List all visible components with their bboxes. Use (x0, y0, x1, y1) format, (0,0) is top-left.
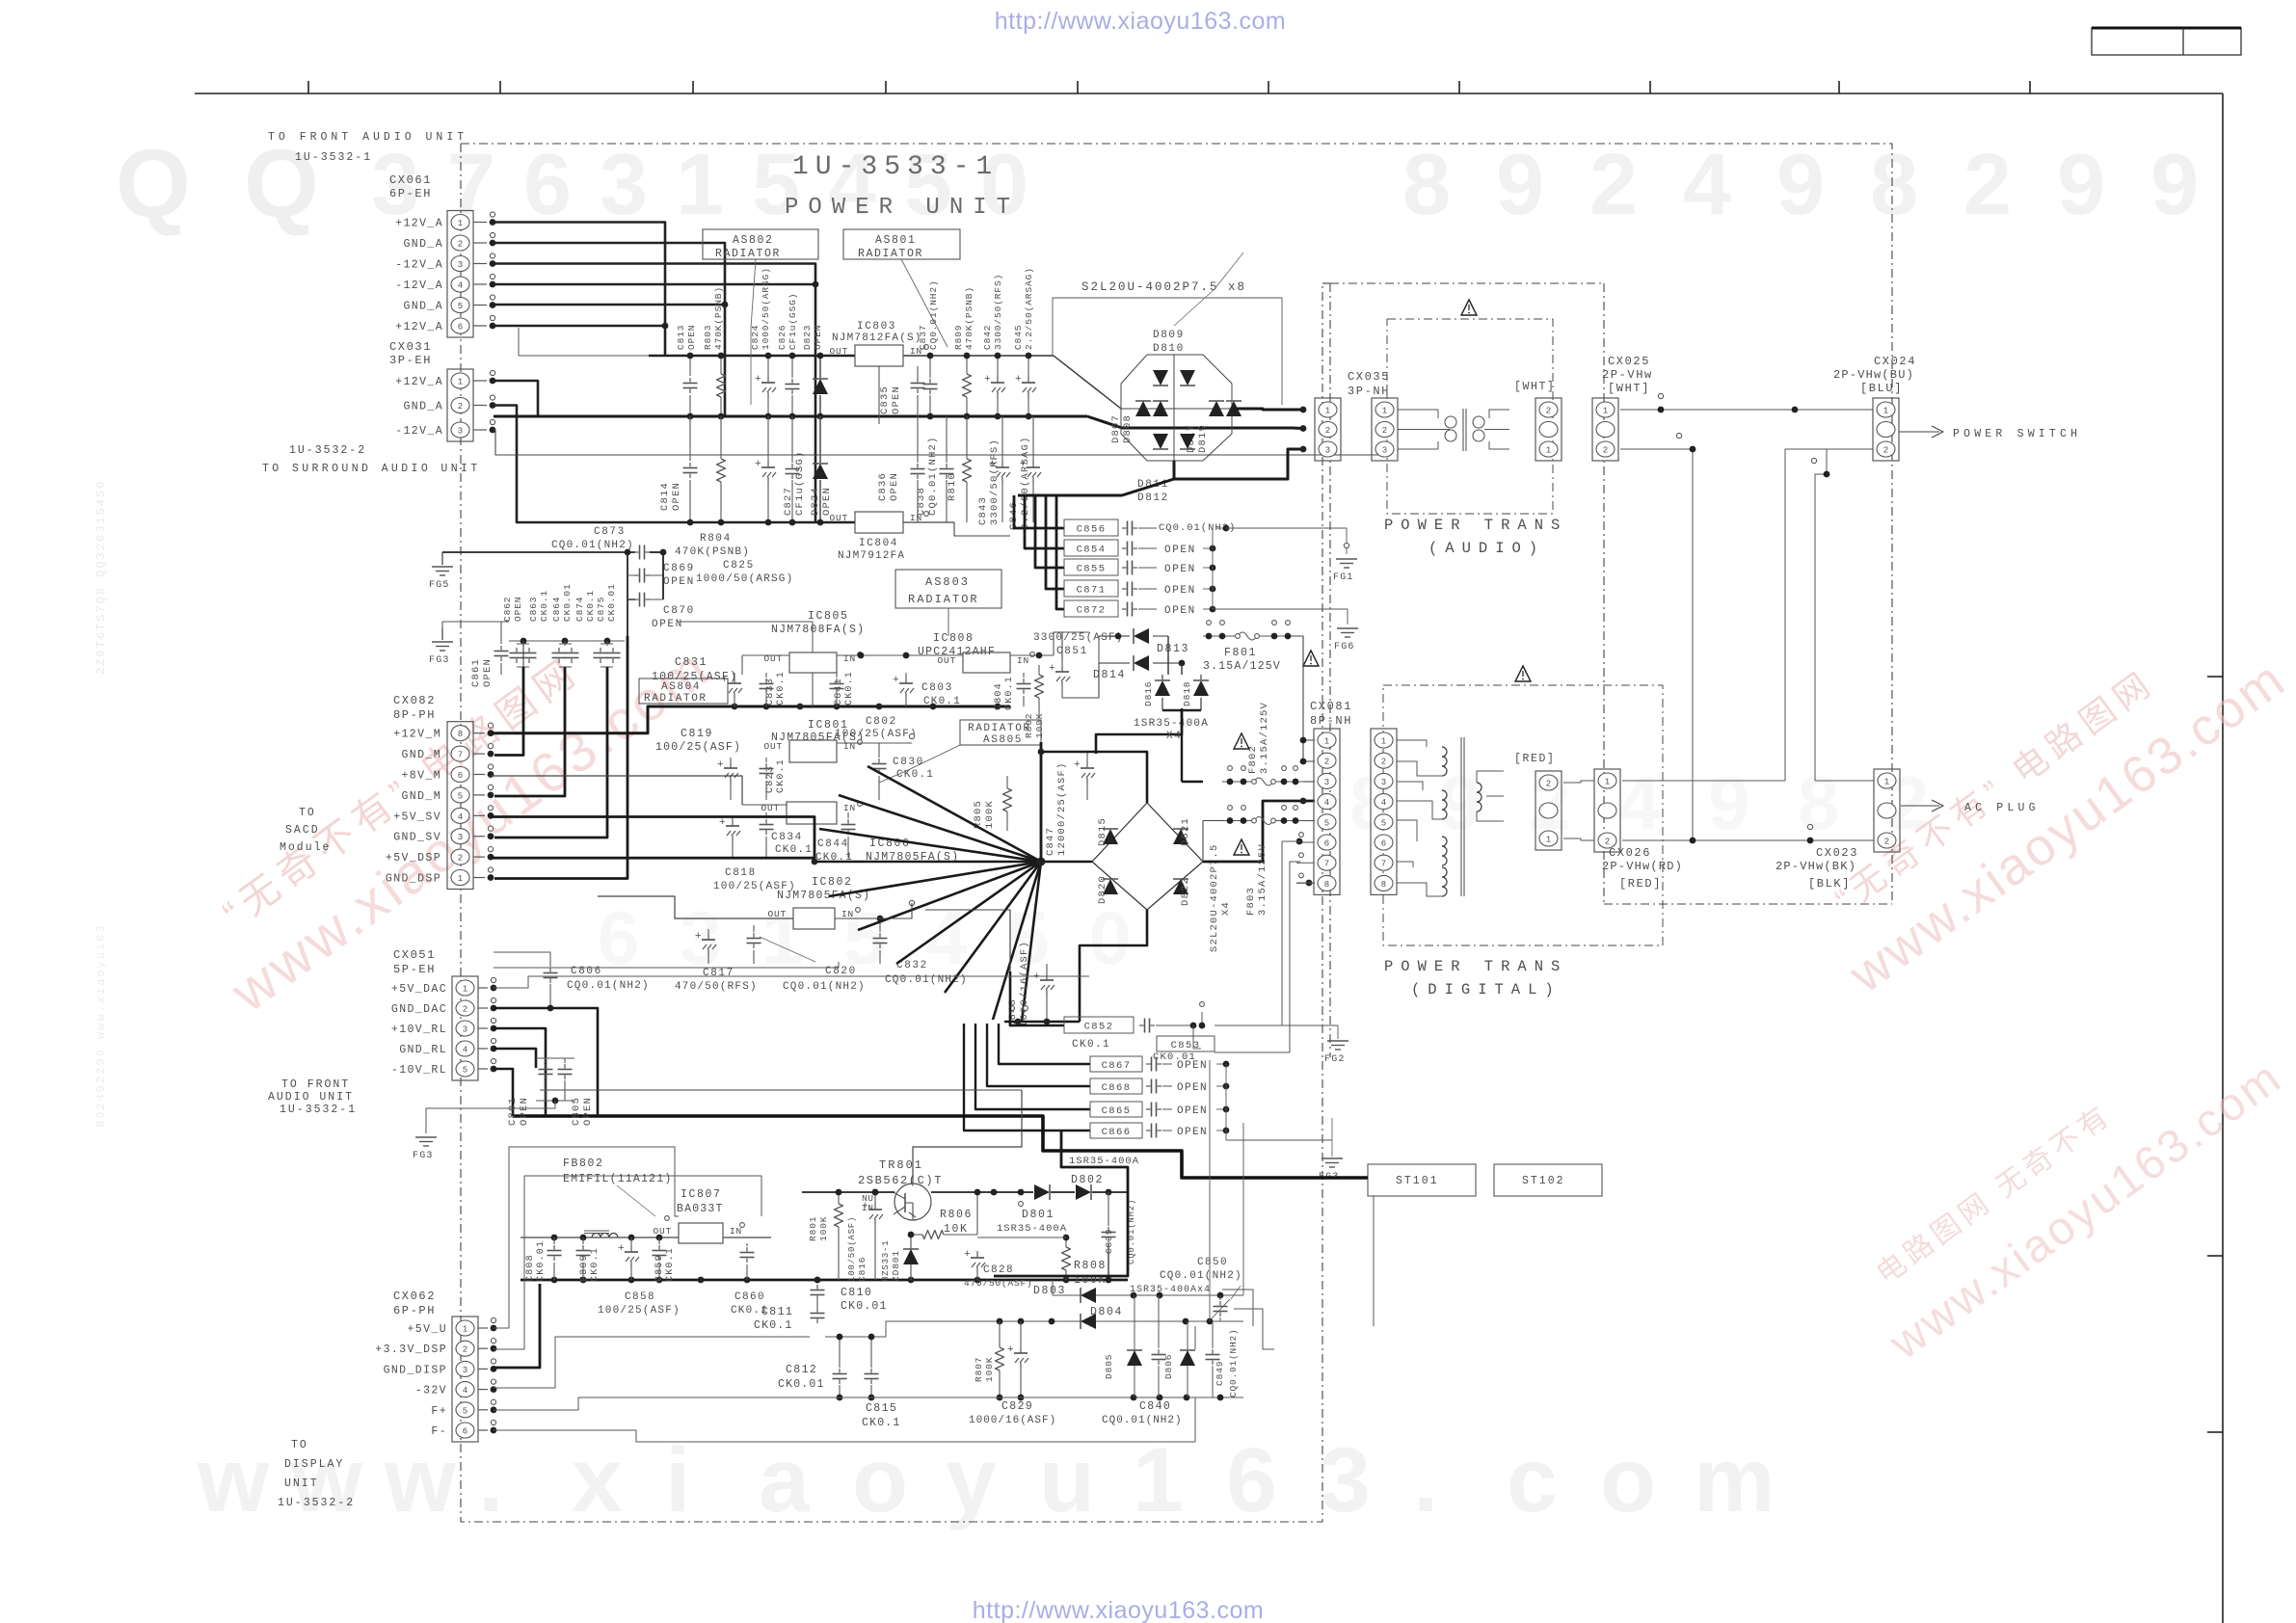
box ST101 (1368, 1164, 1476, 1196)
svg-text:D802: D802 (1071, 1174, 1104, 1186)
svg-text:D816: D816 (1143, 681, 1154, 706)
label C818 100/25(ASF) (713, 867, 796, 892)
svg-text:1000/16(ASF): 1000/16(ASF) (969, 1415, 1056, 1426)
svg-text:C817: C817 (703, 968, 734, 979)
svg-text:1: 1 (1133, 1429, 1184, 1531)
svg-text:470K(PSNB): 470K(PSNB) (964, 286, 974, 350)
svg-text:[WHT]: [WHT] (1514, 381, 1556, 393)
svg-text:POWER UNIT: POWER UNIT (785, 195, 1020, 221)
wire C815 row (1210, 1060, 1243, 1321)
resistor R802 100K (1024, 665, 1045, 738)
svg-text:8P-PH: 8P-PH (393, 708, 436, 722)
svg-text:GND_M: GND_M (401, 749, 441, 761)
wire cap bank to CX082 pin7 (494, 667, 523, 756)
svg-text:FG6: FG6 (1334, 642, 1355, 652)
svg-text:AC PLUG: AC PLUG (1964, 802, 2040, 814)
capacitor C810 CK0.01 (811, 1285, 888, 1313)
capacitor C865 (OPEN) (1090, 1102, 1229, 1117)
wire +5V_SV long (491, 817, 817, 865)
diodes D807 D808 (1110, 401, 1168, 443)
svg-text:1U-3532-2: 1U-3532-2 (278, 1497, 355, 1509)
watermark pink rotated right lower (1847, 1005, 2292, 1370)
svg-text:C843: C843 (977, 496, 989, 525)
svg-text:CK0.1: CK0.1 (776, 671, 787, 705)
capacitor C827 CF1u(GSG) (783, 416, 806, 525)
svg-text:a: a (759, 1429, 811, 1531)
svg-text:+12V_A: +12V_A (395, 218, 443, 230)
svg-text:GND_RL: GND_RL (399, 1044, 447, 1056)
svg-text:CF1u(GSG): CF1u(GSG) (788, 293, 798, 350)
diode D803 (1033, 1280, 1243, 1303)
dash-dot vertical near transformers (1330, 283, 1892, 1057)
svg-text:C833: C833 (765, 678, 776, 705)
wire long mid run1 (835, 903, 1010, 971)
capacitor C854 OPEN (1025, 495, 1215, 556)
svg-text:[BLU]: [BLU] (1860, 382, 1903, 395)
label TO FRONT AUDIO UNIT 1U-3532-1 (268, 1078, 357, 1116)
svg-text:4: 4 (458, 812, 463, 822)
warning triangle audio (1461, 300, 1477, 315)
wire CX031 pin2 GND_A (493, 406, 663, 523)
svg-text:TO: TO (299, 807, 316, 819)
svg-text:RADIATOR: RADIATOR (908, 593, 979, 606)
svg-text:1: 1 (1605, 778, 1610, 787)
capacitor C839 CQ0.01(NH2) (1102, 1192, 1137, 1276)
svg-text:C816: C816 (857, 1257, 868, 1282)
svg-text:+: + (618, 1243, 625, 1255)
wire GND_DAC (494, 1005, 598, 1116)
regulator IC808 UPC2412AHF (918, 632, 1034, 673)
svg-text:OPEN: OPEN (813, 325, 823, 350)
cap bank rail (509, 638, 625, 645)
frame tick marks (308, 81, 2030, 93)
connector CX023 2P-VHw(BK) [BLK] (1775, 769, 1900, 891)
svg-text:CK0.1: CK0.1 (1004, 676, 1015, 710)
svg-text:R807: R807 (974, 1357, 984, 1382)
svg-text:CQ0.01(NH2): CQ0.01(NH2) (783, 981, 866, 993)
diode D805 (1104, 1295, 1142, 1397)
capacitor C844 CK0.1 (815, 812, 856, 864)
capacitor C803 CK0.1 (893, 673, 961, 707)
capacitor C814 (OPEN) (659, 416, 698, 525)
svg-text:C871: C871 (1077, 584, 1107, 596)
svg-text:R804: R804 (700, 533, 732, 545)
wire CX081 pin8 run (1296, 882, 1315, 884)
svg-text:3.15A/125V: 3.15A/125V (1203, 660, 1281, 673)
label C850 CQ0.01(NH2) 1SR35-400Ax4 (1130, 1257, 1242, 1321)
svg-text:9: 9 (2150, 137, 2199, 233)
diode D802 (1051, 1174, 1128, 1200)
svg-text:2SB562(C)T: 2SB562(C)T (858, 1174, 943, 1187)
capacitor C856 CQ0.01(NH2) (1014, 495, 1236, 536)
wire CX081 pin6-7 runs (1215, 841, 1300, 1052)
svg-text:C825: C825 (723, 560, 755, 572)
svg-text:IC803: IC803 (857, 321, 896, 333)
svg-text:100K: 100K (818, 1216, 829, 1241)
svg-text:+5V_DAC: +5V_DAC (391, 983, 447, 996)
svg-text:GND_DSP: GND_DSP (386, 873, 441, 886)
connector CX024 2P-VHw(BU) [BLU] (1833, 355, 1916, 461)
svg-text:y: y (946, 1429, 997, 1531)
regulator IC803 NJM7812FA(S) (829, 321, 928, 366)
svg-text:6: 6 (523, 137, 572, 233)
svg-text:CQ0.01(NH2): CQ0.01(NH2) (1228, 1328, 1239, 1397)
svg-text:C812: C812 (786, 1364, 817, 1376)
transistor TR801 2SB562(C)T (858, 1158, 943, 1220)
capacitor C841 CK0.1 (813, 671, 855, 706)
resistor R803 470K(PSNB) (703, 286, 726, 419)
capacitor C848 1000/16(ASF) (1007, 941, 1055, 1027)
connector CX026 2P-VHw(RD) [RED] (1594, 769, 1683, 891)
svg-text:-32V: -32V (415, 1385, 447, 1397)
wire F- (494, 1397, 1195, 1442)
svg-text:3: 3 (458, 260, 463, 270)
svg-text:C865: C865 (1102, 1105, 1132, 1117)
svg-text:OPEN: OPEN (891, 386, 902, 414)
arrow AC PLUG (1901, 800, 2040, 814)
svg-text:2.2/50(ARSAG): 2.2/50(ARSAG) (1024, 267, 1034, 350)
svg-text:C834: C834 (771, 832, 803, 843)
wire feeders to OPEN cap rows (964, 1024, 1090, 1131)
connector CX051 5P-EH (391, 948, 478, 1080)
label TO SACD Module (280, 807, 331, 854)
connector 3P board side (1315, 398, 1341, 461)
resistor R810 (947, 416, 972, 522)
svg-text:NJM7812FA(S): NJM7812FA(S) (832, 333, 922, 344)
svg-text:CQ0.01(NH2): CQ0.01(NH2) (1160, 1270, 1242, 1282)
svg-text:8: 8 (1798, 760, 1839, 845)
wire +3.3V_DSP (494, 1176, 761, 1349)
svg-text:+: + (893, 675, 899, 686)
svg-text:OPEN: OPEN (1177, 1060, 1208, 1072)
svg-text:C852: C852 (1084, 1021, 1114, 1032)
resistor R808 100K (977, 1235, 1107, 1287)
wire IC805 area riser (663, 552, 813, 652)
svg-text:CK0.1: CK0.1 (844, 671, 855, 705)
label S2L20U-4002P7.5 X4 vertical (1209, 843, 1232, 952)
svg-text:C864: C864 (551, 597, 562, 622)
capacitor C809 CK0.1 (576, 1237, 601, 1282)
svg-text:IC804: IC804 (859, 538, 898, 549)
svg-text:CX082: CX082 (393, 694, 436, 707)
svg-text:CK0.1: CK0.1 (896, 769, 934, 781)
svg-text:CF1u(GSG): CF1u(GSG) (794, 450, 806, 516)
svg-text:C814: C814 (659, 482, 671, 511)
capacitor C833 CK0.1 (760, 671, 788, 706)
svg-text:C872: C872 (1077, 604, 1107, 616)
svg-text:9: 9 (1708, 760, 1749, 845)
svg-text:2: 2 (463, 1005, 467, 1015)
svg-text:C813: C813 (676, 325, 686, 350)
svg-text:+: + (984, 374, 991, 386)
ground FG5 (429, 552, 453, 591)
capacitor C816 100/50(ASF) (847, 1189, 883, 1282)
wire +5V_U (494, 1147, 679, 1328)
svg-text:D821: D821 (1180, 817, 1191, 846)
svg-text:2: 2 (1589, 137, 1638, 233)
svg-text:1: 1 (1546, 836, 1551, 845)
svg-text:100K: 100K (984, 1357, 995, 1382)
svg-text:IC807: IC807 (681, 1188, 722, 1201)
wire bridge2 bottom (1080, 910, 1147, 1022)
wire IC804 in run (954, 522, 1010, 536)
svg-text:IC801: IC801 (808, 719, 849, 732)
watermark gray letters bottom row (197, 1429, 1775, 1531)
wire CX026.1 row (1622, 780, 1874, 782)
ground FG3 right (1319, 1118, 1343, 1183)
svg-text:2: 2 (1324, 758, 1329, 767)
svg-text:3300/50(RFS): 3300/50(RFS) (993, 274, 1003, 350)
svg-text:2: 2 (1605, 838, 1610, 847)
watermark vertical gray text left edge (94, 480, 108, 1128)
svg-text:EMIFIL(11A121): EMIFIL(11A121) (563, 1173, 672, 1185)
svg-text:3P-NH: 3P-NH (1348, 385, 1390, 398)
svg-text:6P-EH: 6P-EH (389, 187, 432, 200)
diode D824 (OPEN) (810, 416, 833, 525)
svg-text:CK0.01: CK0.01 (536, 1240, 547, 1282)
wire GND_A bus from CX061 pin2/pin5 (493, 243, 728, 416)
svg-text:OUT: OUT (937, 655, 956, 666)
svg-text:C828: C828 (983, 1264, 1014, 1276)
svg-text:GND_SV: GND_SV (393, 832, 441, 844)
svg-text:3.15A/125V: 3.15A/125V (1257, 843, 1268, 916)
svg-text:GND_A: GND_A (403, 238, 443, 251)
capacitor C861 (OPEN) (470, 622, 509, 687)
wire bridge lower output (1018, 446, 1306, 495)
svg-text:o: o (1600, 1429, 1656, 1531)
label TO DISPLAY UNIT 1U-3532-2 (278, 1439, 355, 1509)
svg-text:OPEN: OPEN (889, 472, 900, 501)
svg-text:4: 4 (458, 281, 463, 291)
diode D801 (931, 1184, 1067, 1235)
connector CX025 2P-VHw [WHT] (1592, 355, 1653, 461)
svg-text:2: 2 (1381, 758, 1386, 767)
svg-text:POWER SWITCH: POWER SWITCH (1953, 428, 2081, 440)
svg-text:3: 3 (1382, 446, 1387, 456)
svg-text:1: 1 (458, 874, 463, 884)
svg-text:ZD801: ZD801 (891, 1250, 901, 1282)
frame right border line (2222, 93, 2224, 1623)
svg-text:C873: C873 (594, 526, 626, 538)
svg-text:3.15A/125V: 3.15A/125V (1259, 702, 1270, 774)
svg-text:OUT: OUT (653, 1226, 672, 1237)
svg-text:RADIATOR: RADIATOR (644, 693, 707, 705)
capacitor C824 1000/50(ARSG) (750, 267, 776, 419)
connector CX035 3P-NH (1348, 370, 1398, 461)
ground FG2 (1226, 1025, 1348, 1065)
svg-text:OPEN: OPEN (1177, 1082, 1208, 1094)
svg-text:C801: C801 (507, 1097, 519, 1126)
svg-text:C845: C845 (1013, 325, 1024, 350)
svg-text:1SR35-400A: 1SR35-400A (997, 1223, 1067, 1235)
CX031 pin stubs (473, 370, 495, 433)
wire CX026.2 row (1622, 824, 1874, 843)
fuse F801 3.15A/125V (1203, 621, 1292, 673)
svg-text:1: 1 (1325, 407, 1330, 416)
svg-text:3300/50(RFS): 3300/50(RFS) (989, 439, 1001, 525)
capacitor C828 470/50(ASF) (964, 1249, 1033, 1289)
svg-text:D822: D822 (1180, 877, 1191, 906)
svg-text:C811: C811 (761, 1306, 793, 1318)
svg-text:C874: C874 (574, 597, 585, 622)
capacitor C808 CK0.01 (525, 1237, 562, 1282)
svg-text:GND_A: GND_A (403, 401, 443, 413)
svg-text:IN: IN (843, 803, 856, 813)
wire -32V long risers right (1195, 1290, 1274, 1349)
watermark gray digits top row (116, 130, 2199, 238)
capacitor C869 (OPEN) (627, 552, 695, 599)
svg-text:TO FRONT AUDIO UNIT: TO FRONT AUDIO UNIT (268, 131, 467, 144)
svg-text:D818: D818 (1182, 681, 1192, 706)
svg-text:+10V_RL: +10V_RL (391, 1024, 447, 1036)
svg-text:c: c (1507, 1429, 1558, 1531)
svg-text:CX061: CX061 (389, 173, 432, 187)
svg-text:+3.3V_DSP: +3.3V_DSP (375, 1344, 447, 1356)
label POWER TRANS (DIGITAL) (1384, 958, 1567, 998)
dash-dot box power trans audio (1387, 319, 1553, 514)
svg-text:.: . (478, 1429, 503, 1531)
svg-text:IN: IN (1017, 655, 1029, 666)
svg-text:C840: C840 (1139, 1400, 1171, 1413)
CX081 pin stubs 6-8 (1296, 833, 1314, 887)
wire CX024.2 down (1785, 449, 1873, 781)
fuse F803 3.15A/125V (1224, 806, 1315, 916)
svg-text:+: + (1020, 459, 1027, 470)
svg-text:[WHT]: [WHT] (1608, 382, 1650, 395)
wire C811 to right column (1373, 1196, 1375, 1326)
svg-text:10K: 10K (944, 1223, 969, 1236)
CX062 pin stubs (478, 1317, 496, 1433)
capacitor C846 2.2/50(ARSAG) (1008, 416, 1041, 530)
svg-text:i: i (665, 1429, 690, 1531)
svg-text:RADIATOR: RADIATOR (715, 248, 781, 260)
ground FG3 lower-left (413, 1101, 555, 1161)
svg-text:2: 2 (463, 1345, 467, 1355)
label AS804 RADIATOR box (639, 678, 728, 705)
capacitor C806 CQ0.01(NH2) (494, 952, 650, 1008)
capacitor C847 12000/25(ASF) (1041, 742, 1095, 862)
svg-text:C844: C844 (817, 838, 849, 850)
svg-text:OPEN: OPEN (1177, 1127, 1208, 1138)
diode D804 (1081, 1306, 1243, 1329)
svg-text:470/50(RFS): 470/50(RFS) (675, 981, 758, 993)
dash-dot box power trans digital (1383, 685, 1663, 945)
svg-text:FG2: FG2 (1324, 1054, 1346, 1065)
svg-text:8: 8 (458, 730, 463, 739)
svg-text:HZS33-1: HZS33-1 (881, 1240, 891, 1282)
svg-text:8P-NH: 8P-NH (1310, 714, 1352, 728)
svg-text:SACD: SACD (285, 824, 320, 837)
svg-text:D809: D809 (1153, 330, 1185, 341)
svg-text:+: + (717, 759, 724, 771)
svg-text:2Z9T6TS7Q8 QQ326315450: 2Z9T6TS7Q8 QQ326315450 (94, 480, 108, 675)
wire TR801 base row (872, 1189, 879, 1196)
svg-text:8: 8 (1870, 137, 1918, 233)
svg-text:1U-3532-1: 1U-3532-1 (295, 151, 372, 164)
svg-text:POWER TRANS: POWER TRANS (1384, 958, 1567, 975)
wire CX081.3 to F802 (1182, 708, 1224, 782)
svg-text:4: 4 (463, 1046, 467, 1055)
svg-text:5: 5 (458, 302, 463, 311)
wire F+ (494, 1397, 578, 1410)
svg-text:IC802: IC802 (812, 876, 853, 889)
wire bridge output to connector (1232, 407, 1306, 413)
capacitor C838 CQ0.01(NH2) (916, 416, 954, 522)
label 1SR35-400A X4 (1134, 718, 1209, 742)
board boundary dash-dot outline 1U-3533-1 (461, 144, 1892, 1522)
svg-text:470K(PSNB): 470K(PSNB) (675, 546, 750, 558)
svg-text:C854: C854 (1077, 544, 1107, 555)
svg-text:-10V_RL: -10V_RL (391, 1064, 447, 1077)
svg-text:D801: D801 (1022, 1209, 1055, 1221)
svg-text:6: 6 (1324, 839, 1329, 849)
svg-text:4: 4 (1324, 798, 1329, 808)
wire CX031 pin1 +12V_A (493, 381, 538, 416)
capacitor C817 470/50(RFS) (675, 929, 758, 993)
svg-text:o: o (852, 1429, 908, 1531)
capacitor C813 (OPEN) (676, 325, 698, 420)
svg-text:C830: C830 (893, 757, 924, 768)
svg-text:1000/50(ARSG): 1000/50(ARSG) (761, 267, 771, 350)
diodes D809 D810 (1153, 253, 1243, 386)
capacitor C836 (OPEN) (877, 416, 925, 522)
svg-text:FG1: FG1 (1333, 572, 1354, 583)
label RADIATOR AS805 box (879, 720, 1041, 783)
capacitor C835 (OPEN) (879, 366, 925, 424)
svg-text:S2L20U-4002P7.5: S2L20U-4002P7.5 (1209, 843, 1220, 952)
capacitor C852 CK0.1 (1010, 971, 1196, 1051)
svg-text:D820: D820 (1097, 875, 1108, 904)
svg-text:C861: C861 (470, 658, 482, 687)
svg-text:CX035: CX035 (1348, 370, 1390, 384)
svg-text:IN: IN (841, 909, 854, 919)
wire lower bus -12V (IC804) (663, 521, 954, 524)
svg-text:3: 3 (463, 1366, 467, 1375)
resistor R806 10K (908, 1189, 981, 1239)
svg-text:CK0.01: CK0.01 (778, 1378, 825, 1391)
wire star fan-out node (814, 742, 1092, 1022)
svg-text:+: + (721, 675, 728, 686)
capacitor C812 CK0.01 (778, 1334, 879, 1401)
svg-text:2: 2 (458, 402, 463, 412)
capacitor C873 CQ0.01(NH2) (442, 526, 666, 560)
svg-text:CX051: CX051 (393, 948, 436, 962)
wire +5V_DAC (494, 976, 1089, 988)
svg-text:CQ0.01(NH2): CQ0.01(NH2) (927, 436, 939, 516)
diodes D817 D819 (1186, 401, 1241, 453)
wire +12V_A bus from CX061 pin1/pin6 (493, 223, 668, 357)
svg-text:C842: C842 (982, 325, 993, 350)
svg-text:w: w (384, 1429, 457, 1531)
capacitor C801 (OPEN) (507, 1058, 553, 1126)
svg-text:R808: R808 (1074, 1260, 1107, 1272)
svg-text:C826: C826 (777, 325, 788, 350)
svg-text:CQ0.01(NH2): CQ0.01(NH2) (1102, 1415, 1183, 1426)
svg-text:+5V_U: +5V_U (407, 1323, 447, 1336)
wire C811 row (559, 1318, 1081, 1337)
zener diode ZD801 HZS33-1 (881, 1235, 919, 1282)
capacitor C819 100/25(ASF) (655, 728, 741, 800)
svg-text:2P-VHw(BU): 2P-VHw(BU) (1833, 368, 1914, 382)
svg-text:D814: D814 (1093, 669, 1126, 681)
svg-text:1: 1 (676, 137, 724, 233)
svg-text:RADIATOR: RADIATOR (968, 723, 1031, 734)
svg-text:C803: C803 (921, 682, 953, 694)
warning triangle digital (1515, 666, 1531, 681)
svg-text:x: x (572, 1429, 623, 1531)
svg-text:3: 3 (463, 1025, 467, 1035)
svg-text:CK0.1: CK0.1 (776, 758, 787, 793)
